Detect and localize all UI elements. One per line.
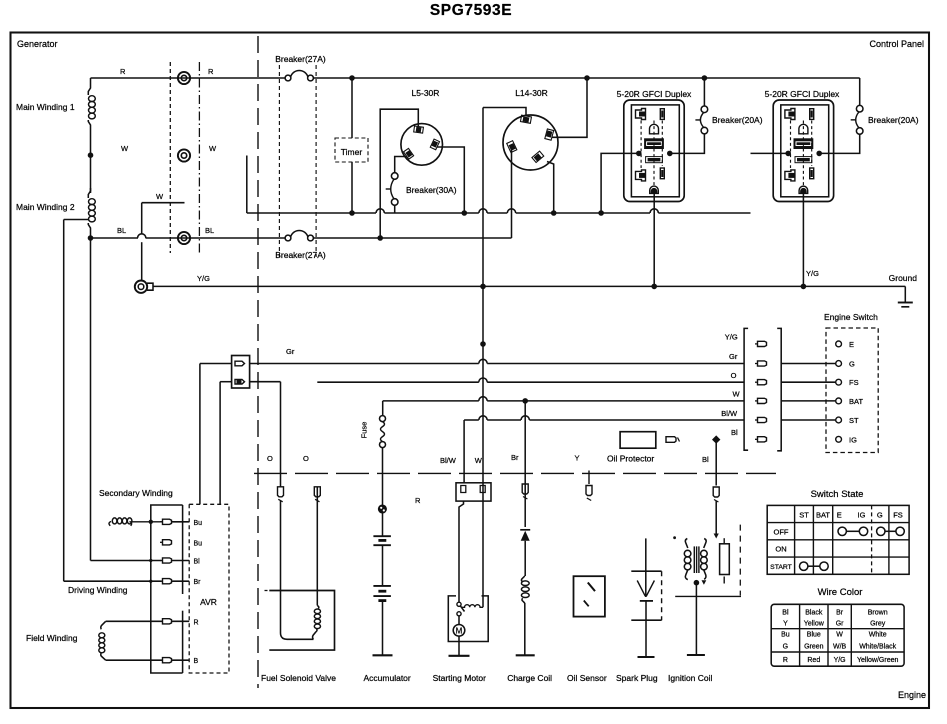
AVR pin Bu bbox=[163, 519, 172, 524]
main winding 1 L1 bbox=[88, 78, 90, 95]
svg-text:Y/G: Y/G bbox=[834, 657, 846, 664]
svg-text:B: B bbox=[194, 658, 199, 665]
node R bus GFCI feed 1 bbox=[584, 75, 590, 81]
wire W center-tap stub bbox=[142, 202, 185, 204]
boundary dashed line slip-ring left bbox=[169, 62, 171, 253]
svg-text:White/Black: White/Black bbox=[859, 644, 896, 651]
fuel solenoid valve outline bbox=[269, 591, 334, 651]
svg-text:Timer: Timer bbox=[341, 147, 363, 157]
svg-text:Y/G: Y/G bbox=[806, 269, 819, 278]
wire ignition coil ground bbox=[695, 583, 697, 655]
ground symbol bbox=[904, 286, 906, 302]
oil protector box bbox=[620, 432, 656, 449]
diode charge bbox=[520, 529, 530, 531]
wire contact to motor bbox=[458, 616, 460, 625]
svg-text:Bu: Bu bbox=[194, 520, 203, 527]
boundary chain line engine top bbox=[254, 472, 776, 474]
breaker 20A first bbox=[701, 106, 708, 113]
engine switch terminal E bbox=[836, 341, 842, 347]
boundary chain line generator/control panel bbox=[257, 36, 259, 688]
svg-text:IG: IG bbox=[849, 435, 857, 444]
wire L5-30R hot feed from BL bbox=[380, 109, 418, 238]
svg-text:Driving Winding: Driving Winding bbox=[68, 585, 128, 595]
node bl bracket bbox=[149, 559, 152, 562]
svg-text:FS: FS bbox=[893, 511, 903, 520]
wire timer bottom bbox=[351, 162, 353, 213]
connector pin row 2 bbox=[758, 361, 767, 366]
svg-text:START: START bbox=[770, 564, 792, 571]
wire charge coil riser bbox=[524, 401, 526, 527]
svg-text:R: R bbox=[208, 67, 214, 76]
svg-text:Yellow: Yellow bbox=[804, 621, 825, 628]
switch state START links bbox=[800, 562, 808, 570]
node neutral GFCI1 bbox=[598, 210, 604, 216]
wire starter contact lead bbox=[459, 501, 464, 602]
node W wire at Y/G crossing handled above; node mid bbox=[480, 341, 486, 347]
svg-text:R: R bbox=[194, 619, 199, 626]
node BL battery-feed tap bbox=[377, 235, 383, 241]
wire L5-30R neutral to bus bbox=[437, 147, 464, 213]
svg-text:ST: ST bbox=[849, 416, 859, 425]
starting motor connector bbox=[456, 483, 491, 501]
connector pin row 4 bbox=[758, 398, 767, 403]
svg-text:ST: ST bbox=[799, 511, 809, 520]
wire GFCI2 ground drop bbox=[802, 194, 804, 287]
node timer on neutral bus bbox=[349, 210, 355, 216]
connector pin row 1 bbox=[758, 341, 767, 346]
hop neutral bus over GFCI1 ground wire bbox=[650, 209, 658, 213]
svg-text:Oil Protector: Oil Protector bbox=[607, 454, 654, 464]
ring terminal ground lug bbox=[135, 281, 147, 293]
secondary winding coil bbox=[109, 522, 111, 526]
svg-text:Switch State: Switch State bbox=[811, 489, 864, 500]
wire fuse to battery bbox=[382, 448, 384, 505]
wire Bl/W drop to starter connector bbox=[463, 420, 465, 483]
svg-text:Gr: Gr bbox=[836, 621, 844, 628]
chassis ground starter bbox=[449, 655, 470, 657]
receptacle L14-30R bbox=[503, 115, 558, 170]
wire L5-30R to breaker 30A bbox=[395, 157, 407, 173]
starter relay coil bbox=[462, 605, 484, 608]
wire breaker 20A-1 to R bus bbox=[703, 78, 705, 106]
svg-text:Breaker(27A): Breaker(27A) bbox=[275, 54, 326, 64]
node Y/G at GFCI2 ground bbox=[801, 284, 807, 290]
fuel solenoid coil bbox=[317, 606, 319, 609]
svg-text:W: W bbox=[836, 632, 843, 639]
starting motor M bbox=[453, 625, 465, 637]
svg-text:Blue: Blue bbox=[807, 632, 821, 639]
wire battery to chassis bbox=[382, 601, 384, 656]
svg-text:Yellow/Green: Yellow/Green bbox=[857, 657, 898, 664]
wire L14-30R W slot feed bbox=[483, 108, 526, 116]
svg-text:Red: Red bbox=[807, 657, 820, 664]
svg-text:Y: Y bbox=[783, 621, 788, 628]
boundary dash-dot line slip-ring right bbox=[198, 62, 200, 253]
chassis ground ignition coil bbox=[687, 654, 705, 656]
svg-text:Field Winding: Field Winding bbox=[26, 633, 78, 643]
AVR pin Bu bbox=[163, 540, 172, 545]
svg-text:Br: Br bbox=[194, 579, 202, 586]
svg-text:O: O bbox=[731, 371, 737, 380]
wire center tap to winding 2 bbox=[90, 155, 92, 193]
node br bracket bbox=[149, 580, 152, 583]
wire Gr connector drop to AVR bbox=[199, 364, 201, 505]
wire W engine run bbox=[482, 108, 484, 608]
svg-text:Y/G: Y/G bbox=[725, 333, 738, 342]
wire driving winding tap bbox=[64, 219, 88, 221]
receptacle L5-30R bbox=[401, 124, 443, 166]
svg-text:BL: BL bbox=[205, 226, 214, 235]
wire BL hot bbox=[91, 237, 139, 239]
svg-text:W: W bbox=[156, 192, 164, 201]
AVR pin R bbox=[163, 619, 172, 624]
wire GFCI2 hot from breaker 20A-2 bbox=[819, 135, 860, 154]
svg-text:Bu: Bu bbox=[781, 632, 790, 639]
ignition coil transformer bbox=[685, 539, 688, 549]
engine switch terminal BAT bbox=[781, 400, 836, 402]
svg-text:Engine: Engine bbox=[898, 690, 926, 700]
stator bracket frame bbox=[151, 505, 183, 673]
svg-text:R: R bbox=[120, 67, 126, 76]
svg-text:Breaker(20A): Breaker(20A) bbox=[868, 115, 919, 125]
svg-text:Y/G: Y/G bbox=[197, 274, 210, 283]
svg-text:Gr: Gr bbox=[286, 347, 295, 356]
svg-text:O: O bbox=[303, 454, 309, 463]
svg-text:BAT: BAT bbox=[816, 511, 830, 520]
spark plug bbox=[645, 538, 647, 597]
connector pin row 5 bbox=[758, 417, 767, 422]
wire GFCI2 neutral stub bbox=[751, 152, 789, 154]
svg-text:Wire Color: Wire Color bbox=[818, 587, 863, 598]
svg-text:Breaker(20A): Breaker(20A) bbox=[712, 115, 763, 125]
svg-text:Charge Coil: Charge Coil bbox=[507, 673, 552, 683]
node BL junction bbox=[88, 235, 94, 241]
wire GFCI1 ground drop bbox=[653, 194, 655, 287]
wire R hot bus bbox=[91, 77, 185, 79]
svg-text:G: G bbox=[849, 360, 855, 369]
battery accumulator cell group 2 bbox=[373, 585, 391, 587]
svg-text:IG: IG bbox=[858, 511, 866, 520]
node Y/G at W wire bbox=[480, 284, 486, 290]
svg-text:Bl: Bl bbox=[702, 455, 709, 464]
chassis ground battery bbox=[373, 654, 393, 656]
switch state OFF links bbox=[838, 527, 846, 535]
svg-text:W: W bbox=[121, 144, 129, 153]
node neutral L5-30R bbox=[462, 210, 468, 216]
svg-text:Y: Y bbox=[575, 454, 580, 463]
svg-text:Breaker(30A): Breaker(30A) bbox=[406, 185, 457, 195]
wire diode to coil bbox=[524, 541, 526, 576]
node secondary winding bracket bbox=[149, 520, 153, 524]
hop neutral bus over W engine wire bbox=[479, 209, 487, 213]
chassis ground spark plug bbox=[638, 656, 655, 658]
wire timer top bbox=[351, 78, 353, 138]
timer box bbox=[335, 138, 368, 162]
wire L14-30R R hot feed bbox=[552, 78, 587, 137]
svg-text:SPG7593E: SPG7593E bbox=[430, 2, 512, 19]
wire Bl kill drop bbox=[715, 440, 717, 486]
svg-text:Bl: Bl bbox=[731, 428, 738, 437]
connector pin row 3 bbox=[758, 380, 767, 385]
wire neutral W bus bbox=[247, 212, 376, 214]
svg-text:Bl: Bl bbox=[782, 610, 789, 617]
breaker dashed guides upper bbox=[278, 65, 280, 257]
svg-text:Accumulator: Accumulator bbox=[364, 673, 411, 683]
svg-text:L14-30R: L14-30R bbox=[515, 88, 548, 98]
ignition coil boundary bbox=[675, 595, 741, 597]
wire terminal to battery bbox=[382, 513, 384, 536]
ignition condenser bbox=[723, 538, 725, 544]
wire W BAT to engine switch bbox=[383, 400, 479, 402]
oil protector connector bbox=[666, 437, 676, 443]
svg-text:G: G bbox=[877, 511, 883, 520]
starter relay contact bbox=[457, 602, 461, 606]
svg-text:Green: Green bbox=[804, 644, 824, 651]
svg-text:Bu: Bu bbox=[194, 540, 203, 547]
terminal R bbox=[178, 72, 190, 84]
svg-text:5-20R GFCI Duplex: 5-20R GFCI Duplex bbox=[765, 89, 840, 99]
breaker 27A upper bbox=[285, 75, 291, 81]
screw terminal bbox=[379, 505, 387, 513]
svg-text:O: O bbox=[267, 454, 273, 463]
svg-text:Engine Switch: Engine Switch bbox=[824, 312, 878, 322]
node GFCI1 line terminals bbox=[636, 151, 642, 157]
node GFCI2 line terminals bbox=[785, 151, 791, 157]
wire fuel solenoid left lead bbox=[281, 501, 314, 639]
svg-text:Oil Sensor: Oil Sensor bbox=[567, 673, 607, 683]
svg-text:Grey: Grey bbox=[870, 621, 886, 628]
svg-text:BL: BL bbox=[117, 226, 126, 235]
fuse bbox=[380, 416, 386, 422]
engine switch dashed box bbox=[826, 328, 878, 453]
svg-text:Fuel Solenoid Valve: Fuel Solenoid Valve bbox=[261, 673, 336, 683]
hop neutral bus over battery feed bbox=[376, 209, 384, 213]
wire battery middle bbox=[382, 545, 384, 586]
connector engine switch right half bbox=[777, 328, 781, 450]
svg-text:OFF: OFF bbox=[774, 528, 789, 537]
wire battery feed riser bbox=[382, 401, 384, 416]
node neutral L14-30R bbox=[551, 210, 557, 216]
node Y/G at GFCI1 ground bbox=[651, 284, 657, 290]
svg-text:Spark Plug: Spark Plug bbox=[616, 673, 658, 683]
svg-text:W: W bbox=[475, 456, 483, 465]
svg-text:Bl: Bl bbox=[194, 559, 201, 566]
receptacle 5-20R GFCI duplex 2 bbox=[773, 100, 833, 202]
terminal W bbox=[178, 149, 190, 161]
connector engine switch left half bbox=[744, 328, 748, 450]
starting motor box bbox=[448, 596, 488, 642]
breaker 30A bbox=[391, 173, 398, 180]
svg-text:R: R bbox=[783, 657, 788, 664]
wire O fuel-solenoid feed bbox=[250, 381, 281, 383]
wire BL junction down to AVR pin 3 bbox=[90, 238, 92, 561]
svg-text:W/B: W/B bbox=[833, 644, 847, 651]
wire L14-30R neutral drop bbox=[547, 162, 554, 214]
svg-text:Bl/W: Bl/W bbox=[721, 409, 738, 418]
svg-text:White: White bbox=[869, 632, 887, 639]
svg-text:Bl/W: Bl/W bbox=[440, 456, 457, 465]
wire Gr from connector to engine switch bbox=[200, 363, 232, 365]
chassis ground charge coil bbox=[516, 654, 535, 656]
wire connector pin2 drop to AVR bbox=[220, 381, 232, 383]
wire breaker 30A to neutral bus bbox=[394, 205, 396, 213]
svg-text:W: W bbox=[733, 390, 741, 399]
svg-text:Generator: Generator bbox=[17, 39, 58, 49]
breaker 20A second bbox=[856, 105, 863, 112]
engine switch terminal ST bbox=[781, 419, 836, 421]
AVR pin Br bbox=[163, 579, 172, 584]
svg-text:L5-30R: L5-30R bbox=[412, 88, 440, 98]
svg-text:Main Winding 1: Main Winding 1 bbox=[16, 102, 75, 112]
node ignition coil ground bbox=[694, 580, 700, 586]
hop BL over W stub bbox=[138, 234, 146, 238]
oil sensor box bbox=[574, 576, 605, 616]
svg-text:Main Winding 2: Main Winding 2 bbox=[16, 202, 75, 212]
svg-text:Control Panel: Control Panel bbox=[869, 39, 924, 49]
charge coil winding bbox=[521, 576, 524, 582]
wire W stub down to ring terminal bbox=[141, 203, 143, 234]
node W BAT at charge coil bbox=[522, 398, 528, 404]
terminal BL bbox=[178, 232, 190, 244]
engine switch terminal G bbox=[781, 363, 836, 365]
connector 2-pin panel bbox=[232, 356, 250, 389]
breaker 27A lower bbox=[285, 235, 291, 241]
wire GFCI1 neutral to bus bbox=[601, 153, 639, 213]
svg-text:Br: Br bbox=[511, 453, 519, 462]
svg-text:Black: Black bbox=[805, 610, 823, 617]
node Bl kill wire bbox=[712, 435, 720, 443]
svg-text:Br: Br bbox=[836, 610, 844, 617]
field winding coil bbox=[101, 621, 106, 629]
node R bus timer tap bbox=[349, 75, 355, 81]
node center tap W bbox=[88, 152, 94, 158]
wire charge coil to chassis bbox=[524, 603, 526, 655]
svg-text:Breaker(27A): Breaker(27A) bbox=[275, 250, 326, 260]
svg-text:BAT: BAT bbox=[849, 397, 863, 406]
wire BL riser to L14-30R bbox=[511, 150, 513, 238]
battery accumulator cell group 1 bbox=[373, 535, 391, 537]
svg-text:Brown: Brown bbox=[868, 610, 888, 617]
svg-text:E: E bbox=[849, 340, 854, 349]
engine switch terminal FS bbox=[781, 381, 836, 383]
svg-text:R: R bbox=[415, 496, 421, 505]
svg-text:W: W bbox=[209, 144, 217, 153]
svg-text:5-20R GFCI Duplex: 5-20R GFCI Duplex bbox=[617, 89, 692, 99]
receptacle 5-20R GFCI duplex 1 bbox=[624, 100, 684, 202]
AVR pin Bl bbox=[163, 558, 172, 563]
wire GFCI1 hot from breaker 20A-1 bbox=[670, 134, 705, 153]
wire motor to chassis bbox=[458, 636, 460, 656]
svg-text:Starting Motor: Starting Motor bbox=[433, 673, 487, 683]
wire R bus corner to breaker 20A-2 bbox=[859, 78, 861, 105]
svg-text:G: G bbox=[783, 644, 788, 651]
wire Y/G ground bus bbox=[153, 285, 905, 287]
svg-text:ON: ON bbox=[775, 545, 786, 554]
AVR pin B bbox=[163, 658, 172, 663]
engine switch terminal IG bbox=[836, 436, 842, 442]
wire neutral bus left riser bbox=[246, 156, 248, 214]
svg-text:Gr: Gr bbox=[729, 352, 738, 361]
wire O to engine switch bbox=[317, 381, 479, 383]
svg-text:Ground: Ground bbox=[889, 273, 918, 283]
hop neutral bus over BL riser bbox=[507, 209, 515, 213]
node R bus breaker20A-1 tap bbox=[702, 75, 708, 81]
wire Bl/W starter to engine switch bbox=[464, 419, 479, 421]
main winding 2 L2 bbox=[88, 188, 90, 198]
svg-text:AVR: AVR bbox=[200, 597, 217, 607]
wire fuel solenoid right lead bbox=[316, 487, 318, 606]
svg-text:FS: FS bbox=[849, 378, 859, 387]
AVR dashed box bbox=[189, 504, 229, 673]
svg-text:Secondary Winding: Secondary Winding bbox=[99, 488, 173, 498]
svg-text:Fuse: Fuse bbox=[360, 422, 369, 439]
svg-text:M: M bbox=[456, 627, 463, 636]
svg-text:E: E bbox=[837, 511, 842, 520]
connector pin row 6 bbox=[758, 437, 767, 442]
svg-text:Ignition Coil: Ignition Coil bbox=[668, 673, 713, 683]
